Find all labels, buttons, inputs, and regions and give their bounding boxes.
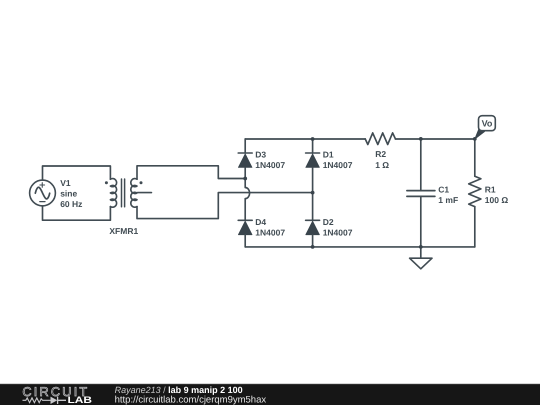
wire bottom rail — [245, 246, 475, 248]
junction node R2/C1 — [419, 137, 423, 141]
wire V1 top to primary — [43, 166, 111, 180]
wire R1 top lead — [474, 139, 476, 176]
resistor R2 — [365, 133, 395, 145]
svg-text:R2: R2 — [375, 149, 386, 159]
junction node bridge right top — [311, 137, 315, 141]
svg-text:100 Ω: 100 Ω — [485, 195, 509, 205]
junction node secondary-top / bridge left — [243, 177, 247, 181]
logo diode — [51, 397, 58, 404]
R1 labels — [485, 184, 509, 205]
wire right branch middle — [312, 167, 314, 220]
secondary center tap stub — [138, 192, 152, 194]
secondary phase dot — [140, 181, 143, 184]
wire C1 top lead — [420, 139, 422, 190]
footer bar — [0, 384, 540, 405]
wire left branch middle with hop over wire — [245, 167, 249, 220]
junction node Vo / R1 — [473, 137, 477, 141]
diode D3 — [238, 153, 252, 167]
diode D1 — [306, 153, 320, 167]
svg-text:http://circuitlab.com/cjerqm9y: http://circuitlab.com/cjerqm9ym5hax — [115, 395, 267, 405]
D1 labels — [323, 149, 353, 169]
svg-text:D2: D2 — [323, 217, 334, 227]
node Vo flag — [475, 116, 496, 139]
svg-text:sine: sine — [60, 189, 77, 199]
svg-text:1 Ω: 1 Ω — [375, 160, 389, 170]
wire bridge right branch upper — [312, 139, 314, 153]
junction node secondary-bottom / bridge right — [311, 191, 315, 195]
D2 labels — [323, 217, 353, 237]
wire top rail right of R2 — [395, 138, 474, 140]
capacitor C1 — [407, 191, 435, 197]
svg-text:C1: C1 — [438, 184, 449, 194]
ground — [410, 247, 432, 269]
transformer XFMR1 secondary winding — [131, 179, 137, 208]
wire V1 bottom to primary — [43, 206, 111, 220]
svg-text:1N4007: 1N4007 — [323, 228, 353, 238]
svg-text:D1: D1 — [323, 149, 334, 159]
svg-text:1N4007: 1N4007 — [323, 160, 353, 170]
svg-text:LAB: LAB — [68, 395, 93, 405]
junction node C1 bottom / ground — [419, 245, 423, 249]
svg-text:1N4007: 1N4007 — [255, 160, 285, 170]
diode D4 — [238, 220, 252, 234]
svg-text:XFMR1: XFMR1 — [109, 226, 138, 236]
logo resistor zigzag — [23, 398, 51, 403]
svg-text:60 Hz: 60 Hz — [60, 199, 82, 209]
diode D2 — [306, 220, 320, 234]
svg-text:D3: D3 — [255, 149, 266, 159]
wire C1 bottom lead — [420, 197, 422, 247]
R2 labels — [375, 149, 389, 170]
junction node bridge right bottom — [311, 245, 315, 249]
wire bridge left branch upper — [244, 139, 246, 153]
transformer core — [122, 179, 125, 207]
wire left branch bottom — [244, 235, 246, 247]
transformer XFMR1 primary winding — [110, 179, 116, 208]
wire secondary top to bridge — [137, 166, 245, 179]
svg-text:Vo: Vo — [482, 118, 493, 128]
voltage source V1 — [30, 180, 56, 206]
D4 labels — [255, 217, 285, 237]
wire right branch bottom — [312, 235, 314, 247]
svg-text:D4: D4 — [255, 217, 266, 227]
D3 labels — [255, 149, 285, 169]
svg-text:R1: R1 — [485, 184, 496, 194]
wire top rail left of R2 — [245, 138, 365, 140]
C1 labels — [438, 184, 458, 205]
primary phase dot — [105, 181, 108, 184]
svg-text:V1: V1 — [60, 178, 71, 188]
svg-text:1 mF: 1 mF — [438, 195, 458, 205]
wire secondary bottom to bridge — [137, 193, 313, 219]
resistor R1 — [469, 176, 481, 206]
wire R1 bottom lead — [474, 207, 476, 247]
svg-text:Rayane213 / lab 9 manip 2 100: Rayane213 / lab 9 manip 2 100 — [115, 385, 243, 395]
V1 value labels — [60, 178, 82, 209]
svg-text:1N4007: 1N4007 — [255, 228, 285, 238]
